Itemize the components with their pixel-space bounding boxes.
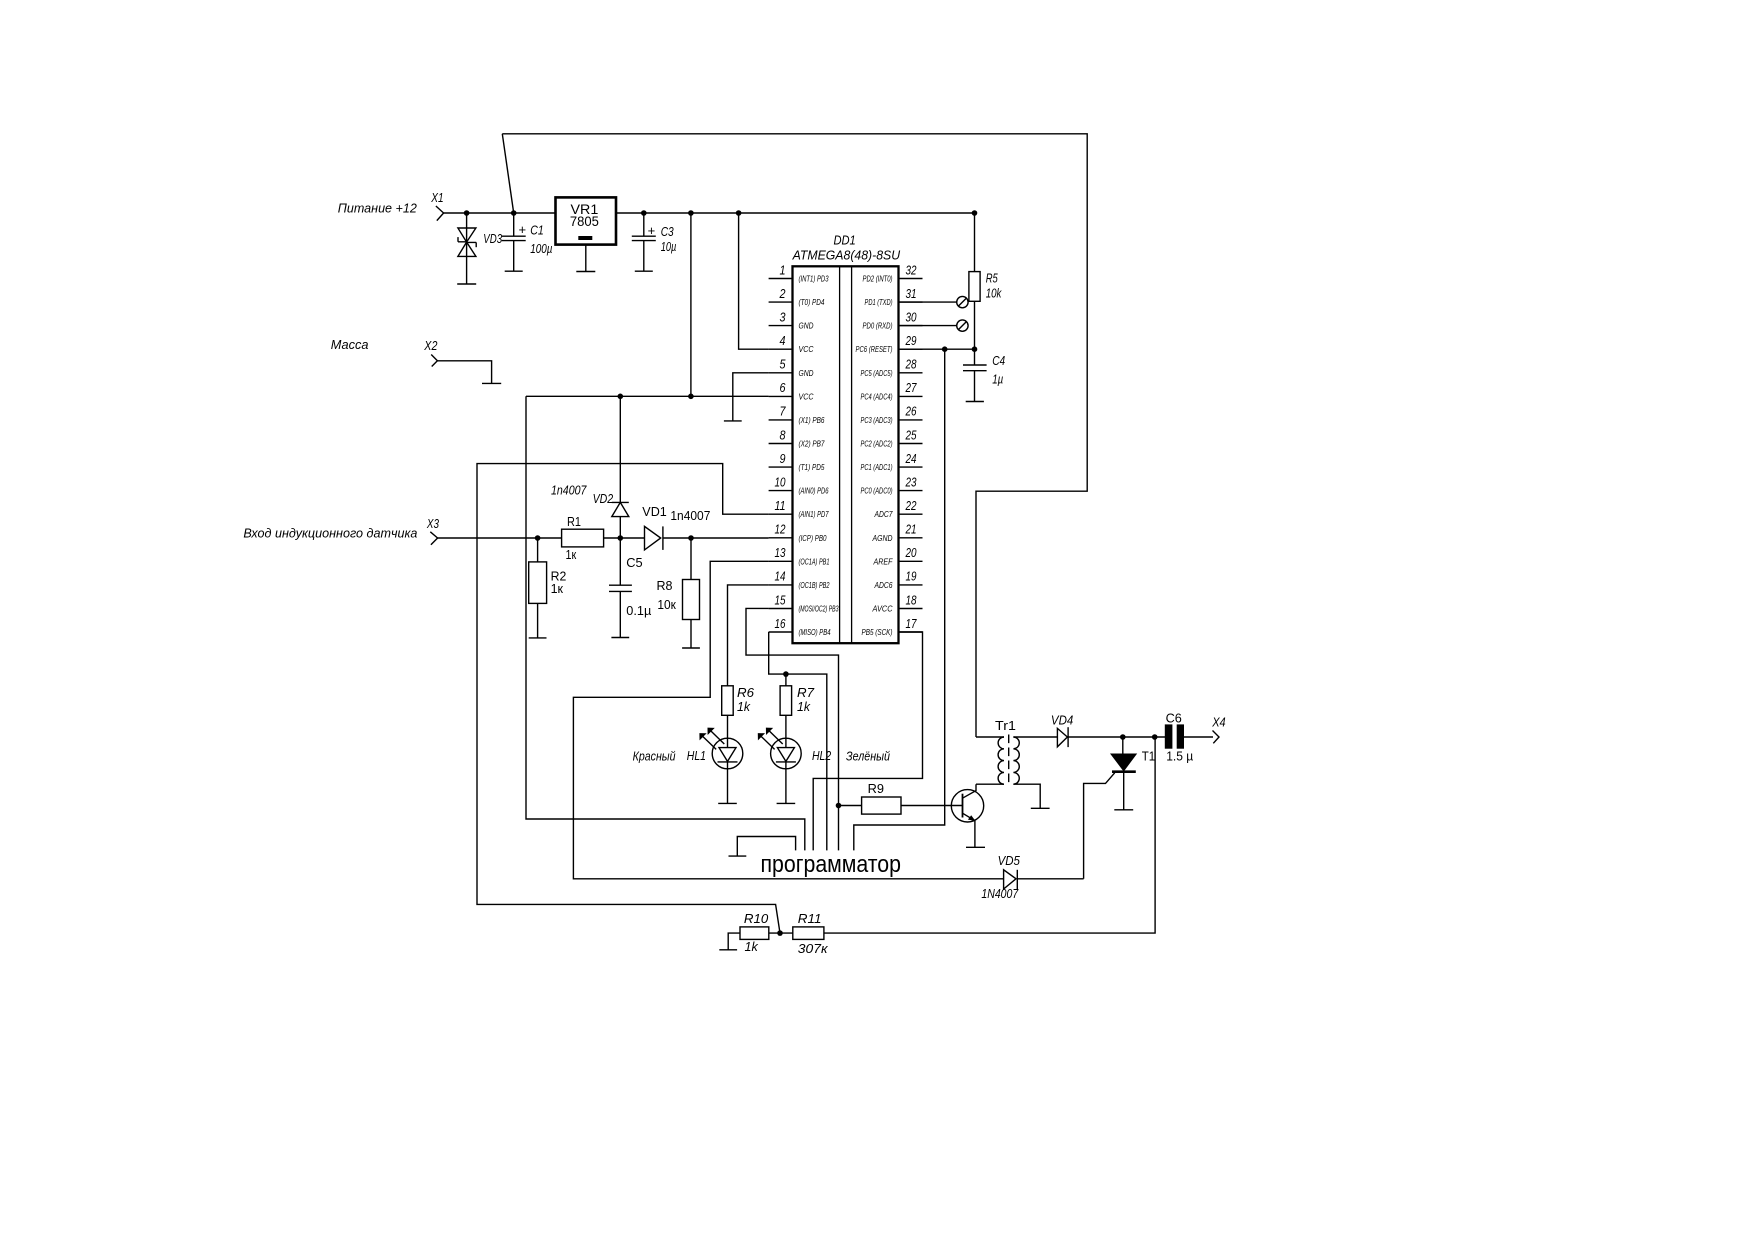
svg-text:VD5: VD5 [998,853,1021,868]
svg-text:21: 21 [905,522,917,537]
thyristor T1 [1084,737,1136,879]
pad circle pin 30 RXD [957,320,968,331]
svg-text:1к: 1к [566,547,577,562]
svg-text:7805: 7805 [570,213,599,229]
wire +5 to VCC line [690,213,692,396]
svg-text:0.1µ: 0.1µ [626,603,651,618]
svg-text:10k: 10k [986,285,1003,300]
pin 19 stub [899,584,923,586]
svg-text:AREF: AREF [873,557,894,566]
svg-text:1n4007: 1n4007 [551,483,587,498]
svg-text:(T0) PD4: (T0) PD4 [799,298,825,307]
pin 9 stub [769,466,793,468]
pin 18 stub [899,608,923,610]
pin 23 stub [899,490,923,492]
connector X3 [430,532,437,545]
svg-text:19: 19 [906,569,917,584]
svg-text:(T1) PD5: (T1) PD5 [799,463,825,472]
svg-text:R7: R7 [797,685,815,700]
pin 4 stub [769,348,793,350]
svg-text:11: 11 [775,498,786,513]
svg-text:17: 17 [906,616,918,631]
capacitor C1 [502,213,526,271]
connector X2 [431,355,437,367]
svg-text:3: 3 [780,309,787,324]
pin 13 stub [769,560,793,562]
svg-text:Вход индукционного датчика: Вход индукционного датчика [243,526,417,541]
IC DD1 ATMEGA8 body [793,266,899,643]
node junction R5 top [972,210,978,216]
resistor R11 [793,737,1155,939]
wire top loop to transformer [502,134,1087,737]
svg-text:2: 2 [779,286,786,301]
node junction after VD1 [688,535,694,541]
pin 32 stub [899,278,923,280]
svg-text:307к: 307к [798,941,829,956]
node junction C3 [641,210,647,216]
svg-text:Питание +12: Питание +12 [338,200,418,215]
pin 27 stub [899,395,923,397]
svg-text:(OC1A) PB1: (OC1A) PB1 [799,557,830,566]
wire pin 29 RESET [899,348,975,350]
svg-text:(X2) PB7: (X2) PB7 [799,440,825,449]
wire pin 11 to divider node [477,464,780,933]
node junction R5-C4 [972,346,978,352]
svg-text:14: 14 [775,569,786,584]
pin 26 stub [899,419,923,421]
svg-text:6: 6 [780,380,787,395]
svg-text:13: 13 [775,545,787,560]
svg-text:R1: R1 [567,514,581,529]
wire pin 13 to VD5 line [573,561,1003,879]
capacitor C3 [632,213,656,271]
svg-text:(AIN0) PD6: (AIN0) PD6 [799,487,829,496]
resistor R8 [683,538,700,648]
node junction VCC drop [688,210,694,216]
pin 1 stub [769,278,793,280]
svg-text:VD4: VD4 [1051,712,1073,727]
svg-text:R6: R6 [737,685,755,700]
LED HL2 [759,728,802,803]
ground bar HL1 [718,802,737,804]
resistor R9 [839,797,963,814]
pin 16 stub [769,631,793,633]
svg-text:VCC: VCC [799,345,814,354]
svg-text:VD1: VD1 [642,504,667,519]
svg-text:PC4 (ADC4): PC4 (ADC4) [861,392,893,401]
node junction R7 top [783,671,789,677]
svg-text:C5: C5 [626,555,642,570]
svg-text:8: 8 [780,427,787,442]
pin 11 stub [769,513,793,515]
wire X2 to ground [437,361,491,384]
pin 28 stub [899,372,923,374]
svg-text:22: 22 [905,498,917,513]
ground bar HL2 [777,802,796,804]
svg-text:GND: GND [799,322,814,331]
wire pin 17 SCK to programmer [813,632,922,850]
pin 31 stub [899,301,923,303]
wire X3 input [438,537,562,539]
wire pin 14 to R6 [728,585,769,686]
svg-text:X3: X3 [426,516,439,531]
ground bar R2 [529,637,547,639]
svg-text:X1: X1 [431,190,444,205]
svg-text:31: 31 [906,286,917,301]
svg-text:1k: 1k [797,699,811,714]
ground bar C1 [505,270,523,272]
svg-text:(INT1) PD3: (INT1) PD3 [799,275,829,284]
transformer Tr1 [976,735,1057,809]
pin 8 stub [769,443,793,445]
svg-text:HL2: HL2 [812,748,832,763]
svg-text:AGND: AGND [872,534,893,543]
connector X1 [436,206,444,221]
wire pin 5 to ground [733,373,769,421]
svg-text:1N4007: 1N4007 [981,886,1018,901]
connector X4 [1213,731,1220,744]
pin 14 stub [769,584,793,586]
svg-text:23: 23 [905,474,917,489]
svg-text:GND: GND [799,369,814,378]
wire pin 15 MOSI to programmer [746,608,839,850]
svg-text:DD1: DD1 [833,233,855,248]
ground bar C4 [966,401,984,403]
pin 20 stub [899,560,923,562]
svg-text:PD1 (TXD): PD1 (TXD) [865,298,893,307]
pin 12 stub [769,537,793,539]
pin 15 stub [769,608,793,610]
suppressor diode VD3 [458,213,476,284]
svg-text:ATMEGA8(48)-8SU: ATMEGA8(48)-8SU [792,247,901,262]
svg-text:26: 26 [905,404,917,419]
regulator VR1 7805 [556,197,617,271]
svg-text:1µ: 1µ [992,371,1003,386]
svg-text:1: 1 [780,262,786,277]
svg-text:VD2: VD2 [593,491,614,506]
svg-text:PC6 (RESET): PC6 (RESET) [856,345,893,354]
wire VCC to programmer [526,396,805,850]
ground bar programmer [729,855,747,857]
wire pin 30 to pad [899,325,957,327]
node junction RESET down [942,346,948,352]
pin 5 stub [769,372,793,374]
pin 30 stub [899,325,923,327]
resistor R7 [780,674,792,748]
pin 6 stub [769,395,793,397]
pin 24 stub [899,466,923,468]
svg-text:ADC7: ADC7 [874,510,893,519]
wire +12 input rail [444,212,556,214]
svg-text:(MISO) PB4: (MISO) PB4 [799,628,831,637]
svg-text:T1: T1 [1142,748,1155,763]
diode VD1 [645,526,769,550]
LED HL1 [700,728,743,803]
svg-text:30: 30 [906,309,918,324]
svg-text:ADC6: ADC6 [874,581,893,590]
ground bar VR1 [576,271,595,273]
ground bar R8 [682,647,700,649]
svg-text:1k: 1k [737,699,751,714]
wire pin 16 MISO to programmer [769,632,827,850]
svg-text:12: 12 [775,522,787,537]
capacitor C4 [963,349,987,401]
svg-text:(AIN1) PD7: (AIN1) PD7 [799,510,829,519]
svg-text:R10: R10 [744,911,769,926]
svg-text:1к: 1к [551,581,564,596]
resistor R10 [728,927,793,950]
svg-text:R5: R5 [986,271,999,286]
svg-text:R11: R11 [798,911,822,926]
pin 7 stub [769,419,793,421]
svg-text:VCC: VCC [799,392,814,401]
ground bar C5 [611,637,629,639]
svg-text:20: 20 [905,545,917,560]
wire VCC line to pin 6 [526,395,769,397]
wire pin 4 VCC drop [739,213,769,349]
svg-text:7: 7 [780,404,787,419]
ground bar T1 [1114,809,1133,811]
svg-text:R8: R8 [657,578,673,593]
svg-text:PC5 (ADC5): PC5 (ADC5) [861,369,893,378]
svg-text:24: 24 [905,451,917,466]
svg-text:10к: 10к [657,597,676,612]
svg-text:программатор: программатор [761,851,902,878]
svg-text:1k: 1k [745,939,760,954]
svg-text:PB5 (SCK): PB5 (SCK) [862,628,893,637]
node junction C6 [1152,734,1158,740]
svg-text:PD0 (RXD): PD0 (RXD) [863,322,893,331]
pin 17 stub [899,631,923,633]
svg-text:C6: C6 [1166,710,1182,725]
svg-text:15: 15 [775,592,787,607]
svg-text:PC1 (ADC1): PC1 (ADC1) [861,463,893,472]
svg-text:Зелёный: Зелёный [846,749,890,764]
svg-text:X2: X2 [423,338,438,353]
svg-text:1n4007: 1n4007 [670,508,710,523]
pin 29 stub [899,348,923,350]
svg-text:+: + [648,223,656,238]
svg-text:9: 9 [780,451,786,466]
pin 22 stub [899,513,923,515]
svg-text:18: 18 [906,592,918,607]
resistor R5 [969,213,980,349]
node junction R10-R11 [777,930,783,936]
pin 25 stub [899,443,923,445]
node junction R2 [535,535,541,541]
svg-text:HL1: HL1 [687,748,706,763]
diode VD2 [612,396,629,538]
diode VD4 [1057,727,1165,747]
pin 2 stub [769,301,793,303]
ground bar C3 [635,270,653,272]
svg-text:16: 16 [775,616,787,631]
resistor R1 [562,529,645,547]
svg-text:Масса: Масса [331,337,369,352]
ground bar emitter [966,846,985,848]
ground bar pin 5 [724,420,742,422]
svg-text:(OC1B) PB2: (OC1B) PB2 [799,581,830,590]
wire pin 31 to pad [899,301,957,303]
wire diagonal feed to top loop [502,134,513,213]
svg-text:C1: C1 [530,223,544,238]
ground bar Tr1 secondary [1031,807,1050,809]
pin 3 stub [769,325,793,327]
capacitor C5 [609,538,632,638]
node junction X1-VD3 [464,210,470,216]
node junction R9 MOSI [836,803,842,809]
svg-text:5: 5 [780,357,787,372]
svg-text:Tr1: Tr1 [995,718,1016,733]
node junction VD2 top [618,394,624,400]
svg-text:R9: R9 [868,781,884,796]
svg-text:VD3: VD3 [483,231,502,246]
svg-text:C4: C4 [992,353,1005,368]
svg-text:(X1) PB6: (X1) PB6 [799,416,825,425]
svg-text:10µ: 10µ [661,239,677,254]
svg-text:29: 29 [905,333,917,348]
svg-text:(MOSI/OC2) PB3: (MOSI/OC2) PB3 [799,605,839,614]
svg-text:PC0 (ADC0): PC0 (ADC0) [861,487,893,496]
svg-text:Красный: Красный [633,749,676,764]
pin 21 stub [899,537,923,539]
node junction pin4 drop [736,210,742,216]
svg-text:AVCC: AVCC [872,605,893,614]
svg-text:PC2 (ADC2): PC2 (ADC2) [861,440,893,449]
svg-text:25: 25 [905,427,917,442]
resistor R6 [722,686,734,748]
ground bar R10 [719,949,737,951]
wire RESET to programmer [854,349,945,850]
svg-text:32: 32 [906,262,918,277]
diode VD5 [1004,870,1084,889]
capacitor C6 [1165,724,1213,748]
node junction VD2-C5 [618,535,624,541]
svg-text:10: 10 [775,474,787,489]
svg-text:100µ: 100µ [530,241,552,256]
ground bar VD3 [457,283,476,285]
resistor R2 [529,538,547,638]
ground bar X2 [482,382,501,384]
svg-text:PD2 (INT0): PD2 (INT0) [863,275,893,284]
svg-text:X4: X4 [1211,714,1225,729]
svg-text:28: 28 [905,357,917,372]
svg-text:(ICP) PB0: (ICP) PB0 [799,534,827,543]
transistor Q1 [951,784,983,847]
svg-text:1.5 µ: 1.5 µ [1166,748,1193,763]
svg-text:27: 27 [905,380,917,395]
svg-text:C3: C3 [661,224,675,239]
svg-text:+: + [519,222,527,237]
svg-text:4: 4 [780,333,786,348]
node junction +5 drop [688,394,694,400]
pad circle pin 31 TXD [957,296,968,307]
ground programmer [737,837,795,857]
node junction T1 anode [1120,734,1126,740]
svg-text:PC3 (ADC3): PC3 (ADC3) [861,416,893,425]
pin 10 stub [769,490,793,492]
wire +5 rail after VR1 [616,212,975,214]
node junction C1 [511,210,517,216]
